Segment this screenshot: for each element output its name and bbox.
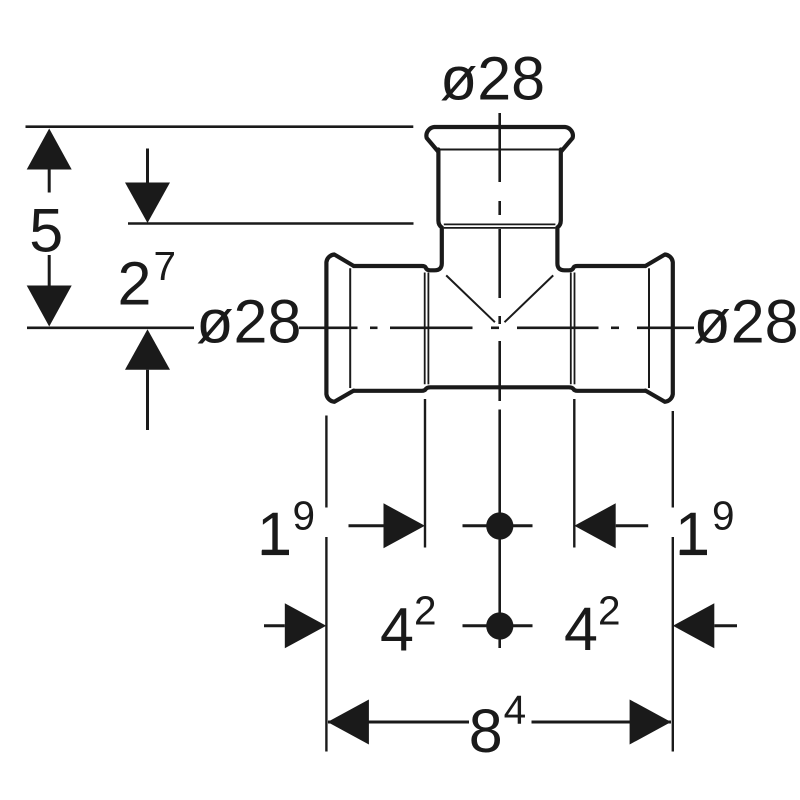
dimension label 4.2 left (380, 588, 437, 664)
dimension label 8.4 (469, 687, 526, 765)
svg-text:4: 4 (564, 595, 598, 663)
svg-text:1: 1 (257, 500, 291, 568)
tee fitting right socket end face lines (574, 273, 576, 385)
dimension line top (level of top socket lip) (26, 125, 414, 128)
svg-text:7: 7 (154, 243, 177, 289)
tee fitting top socket crease line (439, 149, 561, 151)
extension line left outer (x=326.4) (325, 416, 327, 752)
centerline vertical (dash-dot through branch axis) (498, 113, 501, 648)
interior V weld line right (505, 275, 554, 322)
svg-text:2: 2 (598, 588, 621, 634)
svg-text:8: 8 (469, 697, 503, 765)
dimension 1.9 left arrow (349, 503, 425, 548)
svg-text:2: 2 (414, 588, 437, 634)
dimension line 2.7 (level of top socket end face) (128, 222, 414, 225)
dimension 5 lower arrow (27, 255, 72, 327)
dimension 8.4 left arrow (328, 700, 470, 745)
center reference dot row 2 (463, 612, 533, 639)
svg-text:ø28: ø28 (694, 288, 799, 356)
svg-text:9: 9 (293, 493, 316, 539)
tee fitting right socket lip (645, 255, 672, 402)
dimension 5 upper arrow (27, 129, 72, 193)
extension line right socket end (x=574.3) (573, 399, 575, 548)
dimension 2.7 upper arrow (125, 149, 170, 224)
dimension 4.2 left arrow (264, 603, 326, 648)
svg-text:ø28: ø28 (196, 288, 301, 356)
tee fitting top socket left side + left branch-to-run transition (354, 150, 442, 271)
dimension 2.7 lower arrow (125, 329, 170, 430)
tee fitting left socket lip (326, 255, 353, 402)
extension line right outer (x=672.8) (672, 411, 674, 752)
tee fitting top socket right side + right branch-to-run transition (557, 150, 645, 271)
tee fitting bottom outline (left socket bottom, run bottom, right socket bottom) (354, 387, 646, 391)
tee fitting top socket lip (426, 127, 572, 151)
svg-text:1: 1 (675, 500, 709, 568)
dimension 1.9 right arrow (574, 503, 648, 548)
dimension label 4.2 right (564, 588, 621, 664)
dimension 4.2 right arrow (673, 603, 737, 648)
dimension label 1.9 right (675, 493, 735, 569)
tee fitting top socket end face lines (444, 223, 556, 225)
tee fitting left socket crease line (349, 268, 351, 388)
dimension label 2.7 (118, 243, 177, 318)
svg-text:5: 5 (29, 197, 63, 265)
svg-text:4: 4 (380, 596, 414, 664)
extension line left socket end (x=425) (424, 399, 426, 548)
tee fitting left socket end face lines (424, 273, 426, 385)
svg-text:9: 9 (712, 493, 735, 539)
svg-text:ø28: ø28 (440, 45, 545, 113)
dimension label 1.9 left (257, 493, 315, 569)
center reference dot row 1 (463, 512, 533, 539)
svg-text:2: 2 (118, 250, 152, 318)
dimension 8.4 right arrow (532, 700, 672, 745)
svg-text:4: 4 (504, 687, 527, 733)
tee fitting right socket crease line (648, 268, 650, 388)
centerline horizontal (dash-dot through run axis) (27, 326, 694, 329)
interior V weld line left (446, 275, 495, 322)
